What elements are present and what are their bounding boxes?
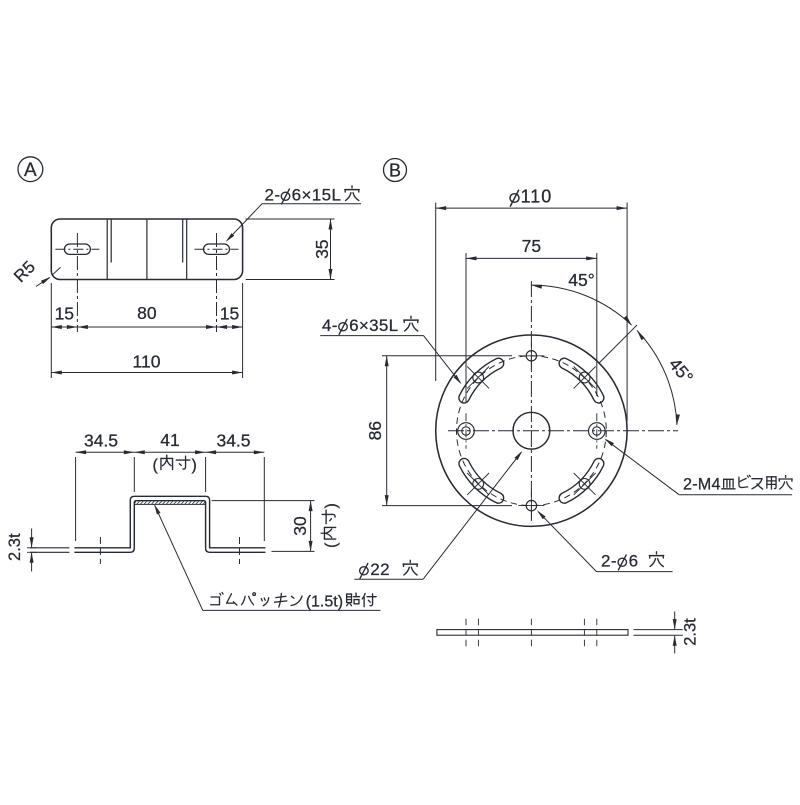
svg-text:): ) (192, 457, 197, 474)
hole centerline slot right (583, 619, 585, 647)
left slot 6x15L (64, 244, 90, 254)
svg-text:(: ( (323, 542, 340, 548)
callout φ22穴 (360, 563, 369, 578)
svg-text:110: 110 (521, 187, 553, 207)
section profile: inner/bottom surface (74, 501, 265, 553)
svg-text:2-: 2- (601, 552, 617, 571)
top φ6 hole (526, 351, 536, 361)
right slot 6x15L horizontal centerline (195, 248, 239, 250)
rubber packing strip (hatched) (134, 503, 205, 505)
view label A (18, 157, 43, 182)
bend line left outer (106, 219, 108, 280)
45° radial line (599, 325, 637, 363)
(内寸) rotated label (321, 503, 340, 548)
dimension φ110 (435, 203, 437, 381)
svg-text:45°: 45° (568, 270, 594, 290)
center hole φ22 (513, 412, 550, 449)
bend line right outer (186, 219, 188, 280)
svg-text:2.3t: 2.3t (682, 618, 700, 646)
slot NE φ6×35L (559, 358, 604, 403)
left slot 6x15L horizontal centerline (55, 248, 99, 250)
svg-text:75: 75 (522, 236, 541, 256)
svg-text:6×15L: 6×15L (292, 186, 342, 205)
hole centerline M4 left (465, 619, 467, 647)
right slot 6x15L vertical centerline (216, 233, 218, 332)
svg-text:15: 15 (220, 304, 239, 324)
svg-text:35: 35 (312, 239, 332, 258)
svg-text:86: 86 (365, 421, 385, 440)
dimensions 15 / 80 / 15 (50, 283, 52, 378)
vertical centerline (530, 281, 532, 521)
flange outer circle φ110 (436, 335, 627, 526)
45° angle arc (lower) (637, 331, 677, 425)
svg-text:80: 80 (137, 303, 157, 323)
slot NW φ6×35L (459, 358, 504, 403)
horizontal centerline (448, 430, 678, 432)
bottom φ6 hole (526, 500, 536, 510)
svg-text:6: 6 (629, 552, 639, 571)
svg-text:34.5: 34.5 (84, 431, 118, 451)
section profile: outer/top surface (74, 496, 265, 548)
svg-text:4-: 4- (322, 316, 338, 335)
hole centerline slot left (477, 619, 479, 647)
svg-text:(1.5t): (1.5t) (306, 594, 343, 611)
right M4 countersunk hole (589, 423, 606, 440)
left M4 countersunk hole (458, 423, 475, 440)
slot SE φ6×35L (559, 458, 604, 503)
view label B (384, 159, 407, 182)
flange side view plate (437, 630, 628, 636)
bend line left inner (partial) (110, 219, 112, 263)
svg-text:2.3t: 2.3t (6, 533, 24, 561)
svg-text:): ) (323, 503, 340, 508)
slot centerlines through section (99, 537, 101, 564)
slot SW φ6×35L (459, 458, 504, 503)
svg-text:B: B (389, 161, 401, 181)
dimension 110 (51, 372, 242, 374)
svg-text:6×35L: 6×35L (349, 316, 398, 335)
right slot 6x15L (204, 244, 230, 254)
svg-text:30: 30 (290, 516, 310, 536)
svg-text:(: ( (153, 457, 159, 474)
dimension 2.3t (sheet thickness) (30, 547, 69, 549)
plate center line (146, 219, 148, 280)
svg-text:22: 22 (370, 560, 390, 579)
svg-text:34.5: 34.5 (216, 431, 250, 451)
leader ゴムパッキン(1.5t)貼付 (155, 506, 203, 611)
svg-text:A: A (24, 160, 37, 181)
dimension 30 (内寸) height (212, 500, 315, 502)
bracket plate outline (110x35, R5 corners) (51, 219, 242, 280)
hole centerline M4 right (596, 619, 598, 647)
pitch circle φ86 (dashed) (457, 356, 607, 506)
svg-text:15: 15 (55, 304, 74, 324)
hole centerline center (530, 619, 532, 647)
dimension 75 (465, 253, 467, 403)
dimension 2.3t (plate thickness) (634, 629, 683, 631)
svg-text:110: 110 (133, 352, 161, 372)
svg-text:41: 41 (160, 430, 179, 450)
left slot 6x15L vertical centerline (76, 233, 78, 332)
bend line right inner (partial) (182, 219, 184, 263)
svg-text:2-: 2- (265, 186, 281, 205)
45° angle arc (top) (531, 285, 631, 325)
svg-text:2-M4: 2-M4 (683, 476, 721, 494)
dimensions 34.5 / 41(内寸) / 34.5 (75, 457, 77, 541)
dimension 35 (plate width) (246, 218, 335, 220)
dimension 86 (382, 355, 512, 357)
